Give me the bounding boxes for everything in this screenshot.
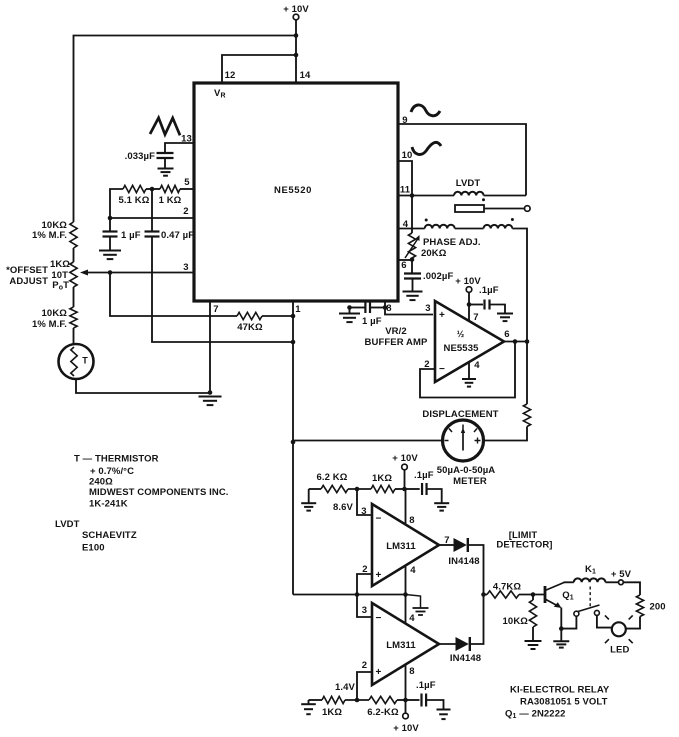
- ground: [525, 641, 542, 649]
- ground: [403, 292, 423, 301]
- pin 7 label: [213, 304, 218, 315]
- resistor 10K base: [503, 595, 537, 628]
- svg-text:1 µF: 1 µF: [362, 316, 382, 327]
- node junction: [402, 487, 407, 492]
- svg-text:1K-241K: 1K-241K: [89, 499, 128, 510]
- resistor 1K lower: [322, 696, 345, 718]
- svg-text:T — THERMISTOR: T — THERMISTOR: [74, 454, 159, 465]
- pin3 label: [425, 303, 445, 321]
- node junction: [355, 487, 360, 492]
- wire meter left: [293, 440, 443, 442]
- svg-text:3: 3: [361, 506, 366, 517]
- pin2 label: [362, 660, 382, 678]
- wire: [76, 379, 210, 393]
- svg-text:12: 12: [225, 70, 236, 81]
- node junction: [108, 270, 113, 275]
- pin2 label: [362, 564, 381, 581]
- wire: [455, 228, 484, 230]
- svg-text:47KΩ: 47KΩ: [237, 322, 263, 333]
- node junction: [410, 193, 415, 198]
- wire: [209, 301, 211, 394]
- ground: [301, 489, 316, 511]
- pin4 label: [474, 360, 480, 371]
- resistor R 10K upper: [32, 220, 77, 248]
- wire pin7: [468, 305, 470, 322]
- ground: [462, 379, 476, 387]
- capacitor .1uF opamp: [469, 285, 499, 310]
- wire pin11 row: [398, 195, 454, 197]
- svg-text:8: 8: [409, 515, 414, 526]
- node junction: [403, 698, 408, 703]
- svg-text:5: 5: [184, 177, 190, 188]
- svg-text:ADJUST: ADJUST: [9, 276, 48, 287]
- svg-text:E100: E100: [82, 543, 105, 554]
- node junction: [150, 187, 155, 192]
- svg-text:1.4V: 1.4V: [335, 682, 356, 693]
- wire: [349, 308, 351, 314]
- wire: [73, 248, 75, 262]
- svg-text:PHASE ADJ.: PHASE ADJ.: [423, 237, 481, 248]
- pin 9 label: [402, 115, 407, 126]
- wire: [411, 196, 413, 234]
- node junction: [208, 390, 213, 395]
- comparator U3 LM311: [372, 504, 439, 586]
- svg-text:3: 3: [183, 262, 188, 273]
- note relay: [505, 685, 610, 721]
- wire: [519, 594, 544, 596]
- wire: [597, 615, 612, 627]
- wire pin8: [385, 301, 433, 315]
- wire: [293, 594, 406, 596]
- svg-text:.1µF: .1µF: [414, 470, 434, 481]
- svg-text:LVDT: LVDT: [456, 178, 481, 189]
- LED D3: [605, 615, 633, 655]
- svg-text:50µA-0-50µA: 50µA-0-50µA: [437, 465, 496, 476]
- svg-text:6.2 KΩ: 6.2 KΩ: [317, 472, 348, 483]
- wire pin9: [398, 124, 526, 196]
- svg-text:14: 14: [300, 70, 311, 81]
- resistor 200: [636, 595, 665, 617]
- svg-text:6: 6: [504, 329, 509, 340]
- svg-text:+: +: [376, 667, 382, 678]
- svg-text:10: 10: [402, 150, 413, 161]
- wire emitter: [560, 608, 562, 629]
- svg-text:+ 10V: + 10V: [283, 4, 309, 15]
- pin 1 label: [295, 304, 301, 315]
- svg-text:½: ½: [457, 329, 465, 339]
- wire pin2 row: [110, 217, 194, 219]
- node junction: [355, 592, 360, 597]
- label 1.4V: [335, 682, 356, 693]
- svg-text:8: 8: [409, 666, 414, 677]
- pin4 label: [410, 565, 416, 576]
- wire pin2: [357, 672, 372, 700]
- svg-text:LED: LED: [610, 645, 629, 656]
- inductor LVDT secondary A: [425, 225, 455, 229]
- pin6 label: [504, 329, 509, 340]
- svg-text:1: 1: [295, 304, 301, 315]
- node junction: [481, 592, 486, 597]
- wire pin4 row: [398, 228, 425, 230]
- pin7 label: [473, 312, 478, 323]
- svg-text:240Ω: 240Ω: [89, 477, 113, 488]
- svg-text:KI-ELECTROL RELAY: KI-ELECTROL RELAY: [510, 685, 610, 696]
- core terminal: [525, 206, 531, 212]
- svg-text:IN4148: IN4148: [448, 556, 479, 567]
- wire: [165, 143, 194, 152]
- svg-text:VR/2: VR/2: [385, 326, 407, 337]
- pin 8 label: [386, 303, 391, 314]
- node junction: [355, 698, 360, 703]
- svg-text:DETECTOR]: DETECTOR]: [496, 540, 552, 551]
- pin 4 label: [403, 219, 409, 230]
- svg-text:2: 2: [362, 660, 367, 671]
- svg-text:+ 5V: + 5V: [611, 569, 632, 580]
- potentiometer 1K 10T: [50, 259, 77, 292]
- node junction: [559, 626, 564, 631]
- wire: [468, 292, 470, 304]
- svg-text:4: 4: [410, 565, 416, 576]
- wire collector: [564, 581, 574, 583]
- wire pin4: [405, 566, 407, 595]
- label offset adjust: [6, 265, 48, 287]
- wire: [532, 627, 534, 641]
- wire pin4: [468, 362, 470, 379]
- svg-text:4.7KΩ: 4.7KΩ: [493, 582, 521, 593]
- ground: [158, 169, 174, 176]
- wire: [370, 307, 385, 309]
- svg-text:11: 11: [400, 185, 411, 196]
- wire: [295, 20, 297, 83]
- wire: [262, 315, 293, 317]
- relay dashed link: [589, 587, 591, 608]
- pin3 label: [361, 506, 381, 525]
- thermistor T: [59, 344, 94, 379]
- node junction: [291, 314, 296, 319]
- svg-text:LM311: LM311: [386, 541, 416, 552]
- wire: [426, 700, 443, 709]
- svg-text:200: 200: [650, 602, 666, 613]
- resistor R 10K lower: [32, 307, 77, 330]
- pin8 label: [409, 515, 414, 526]
- svg-text:7: 7: [473, 312, 478, 323]
- node junction: [294, 33, 299, 38]
- svg-text:1 µF: 1 µF: [121, 230, 141, 241]
- svg-text:SCHAEVITZ: SCHAEVITZ: [82, 530, 137, 541]
- wire: [110, 189, 123, 218]
- wire: [512, 229, 527, 342]
- sine symbol pin10: [412, 142, 441, 154]
- svg-text:1% M.F.: 1% M.F.: [32, 230, 67, 241]
- svg-text:6.2-KΩ: 6.2-KΩ: [367, 707, 399, 718]
- wire: [471, 595, 484, 645]
- resistor 1K: [159, 185, 182, 206]
- wire pin6: [398, 259, 412, 261]
- svg-text:5.1 KΩ: 5.1 KΩ: [119, 195, 150, 206]
- node junction: [410, 257, 415, 262]
- wire: [74, 36, 297, 223]
- wire: [292, 301, 294, 595]
- wire: [404, 470, 406, 489]
- wire output: [439, 544, 454, 546]
- wire output: [439, 643, 456, 645]
- wire: [412, 279, 414, 292]
- svg-text:−: −: [439, 364, 445, 375]
- svg-text:1KΩ: 1KΩ: [50, 259, 70, 270]
- resistor 47K: [237, 312, 263, 333]
- svg-text:BUFFER AMP: BUFFER AMP: [365, 337, 428, 348]
- wire: [626, 617, 640, 629]
- ground: [406, 595, 429, 616]
- ground: [434, 503, 449, 510]
- core rod wire: [484, 208, 525, 210]
- wire: [490, 305, 506, 314]
- phasing dot: [482, 198, 485, 201]
- wire: [561, 616, 576, 629]
- pin7 label: [444, 535, 449, 546]
- wire: [357, 595, 372, 618]
- wire: [427, 489, 442, 503]
- phasing dot: [511, 218, 514, 221]
- wire 0.47 vertical: [151, 189, 153, 231]
- power +5V terminal: [611, 569, 632, 585]
- resistor 6.2K lower: [367, 696, 399, 718]
- relay contact: [574, 611, 579, 616]
- label limit detector: [496, 530, 552, 551]
- pin 13 label: [181, 134, 192, 145]
- svg-text:20KΩ: 20KΩ: [421, 248, 447, 259]
- wire: [222, 55, 296, 83]
- diode D1 IN4148: [448, 538, 479, 567]
- capacitor 1uF buffer: [362, 302, 382, 327]
- potentiometer PHASE ADJ 20K: [408, 233, 480, 259]
- svg-text:2: 2: [183, 206, 188, 217]
- resistor 4.7K: [487, 582, 521, 599]
- capacitor .002uF: [404, 271, 453, 282]
- svg-text:IN4148: IN4148: [450, 653, 481, 664]
- LVDT core: [455, 205, 484, 212]
- power +10V terminal: [455, 276, 481, 292]
- svg-text:7: 7: [213, 304, 218, 315]
- svg-text:+ 0.7%/°C: + 0.7%/°C: [90, 466, 134, 477]
- pin2 label: [424, 359, 445, 375]
- wire: [411, 258, 413, 273]
- svg-text:*OFFSET: *OFFSET: [6, 265, 48, 276]
- wire pin8: [405, 665, 407, 701]
- svg-text:T: T: [82, 356, 88, 366]
- wire: [484, 195, 526, 197]
- node junction: [513, 339, 530, 344]
- svg-text:.1µF: .1µF: [416, 680, 436, 691]
- svg-text:.033µF: .033µF: [125, 151, 155, 162]
- pin 12 label: [225, 70, 236, 81]
- wire: [348, 488, 371, 490]
- wire pin4: [405, 595, 407, 624]
- wire: [350, 307, 366, 309]
- wire: [345, 699, 369, 701]
- node junction: [347, 305, 387, 310]
- transistor Q1: [545, 583, 574, 609]
- wire: [623, 582, 640, 595]
- resistor 5.1K: [119, 185, 150, 206]
- svg-text:10KΩ: 10KΩ: [503, 616, 529, 627]
- node junction: [291, 440, 296, 445]
- label LVDT: [456, 178, 481, 189]
- ground: [99, 251, 121, 260]
- label 8.6V: [333, 502, 354, 513]
- wire: [397, 699, 406, 701]
- pin VR label: [214, 88, 226, 100]
- wire: [605, 581, 618, 583]
- wire: [109, 237, 111, 251]
- svg-text:3: 3: [362, 605, 367, 616]
- wire: [469, 545, 484, 595]
- wire feedback: [420, 342, 515, 398]
- ground: [437, 710, 451, 720]
- svg-text:RA3081051 5 VOLT: RA3081051 5 VOLT: [520, 697, 608, 708]
- pin 5 label: [184, 177, 190, 188]
- wire pin10: [398, 161, 412, 196]
- resistor 1K upper: [371, 473, 395, 493]
- power +10V terminal: [393, 700, 419, 734]
- svg-text:−: −: [376, 514, 382, 525]
- pin4 label: [409, 613, 415, 624]
- note lvdt: [55, 519, 137, 554]
- node junction: [294, 53, 299, 58]
- label VR/2 buffer amp: [365, 326, 428, 348]
- inductor LVDT primary: [454, 192, 484, 196]
- svg-text:.002µF: .002µF: [423, 271, 453, 282]
- meter M1: [443, 420, 484, 461]
- sine symbol pin9: [411, 105, 440, 116]
- diode D2 IN4148: [450, 637, 481, 664]
- resistor meter series: [484, 342, 531, 441]
- svg-text:DISPLACEMENT: DISPLACEMENT: [422, 409, 498, 420]
- svg-text:+: +: [439, 310, 445, 321]
- ground: [301, 700, 316, 714]
- svg-text:NE5520: NE5520: [274, 185, 312, 196]
- svg-text:0.47 µF: 0.47 µF: [161, 230, 194, 241]
- capacitor .1uF lm1: [405, 470, 434, 495]
- svg-text:10KΩ: 10KΩ: [42, 308, 68, 319]
- pot wiper arrow: [80, 270, 110, 276]
- pin 11 label: [400, 185, 411, 196]
- wire: [180, 188, 194, 190]
- relay K1 coil: [574, 578, 606, 582]
- wire: [110, 273, 237, 317]
- svg-text:1KΩ: 1KΩ: [372, 473, 392, 484]
- power +10V terminal: [283, 4, 309, 20]
- wire pin8: [405, 489, 407, 525]
- node junction: [531, 592, 536, 597]
- node junction: [467, 302, 472, 307]
- pin 14 label: [300, 70, 311, 81]
- node junction: [291, 340, 296, 345]
- power +10V terminal: [392, 453, 418, 470]
- pin 2 label: [183, 206, 188, 217]
- pin8 label: [409, 666, 414, 677]
- svg-text:MIDWEST COMPONENTS INC.: MIDWEST COMPONENTS INC.: [89, 487, 229, 498]
- relay contact arm: [578, 605, 600, 612]
- inductor LVDT secondary B: [484, 225, 513, 229]
- label displacement: [422, 409, 498, 420]
- resistor 6.2K upper: [317, 472, 348, 493]
- wire pin2: [357, 574, 372, 595]
- svg-text:METER: METER: [453, 476, 487, 487]
- svg-text:+ 10V: + 10V: [392, 453, 418, 464]
- wire: [152, 237, 293, 343]
- node junction: [403, 592, 408, 597]
- phasing dot: [425, 219, 428, 222]
- wire output: [504, 341, 527, 343]
- svg-text:8.6V: 8.6V: [333, 502, 354, 513]
- wire: [560, 629, 562, 641]
- svg-text:8: 8: [386, 303, 391, 314]
- pin 10 label: [402, 150, 413, 161]
- label K1: [585, 564, 596, 576]
- svg-text:+ 10V: + 10V: [455, 276, 481, 287]
- wire: [309, 699, 323, 701]
- pin 3 label: [183, 262, 188, 273]
- ground: [497, 314, 513, 322]
- svg-text:1% M.F.: 1% M.F.: [32, 319, 67, 330]
- ground: [199, 397, 222, 406]
- capacitor 0.47uF: [145, 230, 195, 241]
- pin3 label: [362, 605, 382, 624]
- wire: [164, 158, 166, 169]
- pin 6 label: [401, 260, 406, 271]
- svg-text:LM311: LM311: [386, 640, 416, 651]
- svg-text:−: −: [376, 613, 382, 624]
- capacitor .033uF: [125, 151, 174, 162]
- comparator U4 LM311: [372, 603, 439, 685]
- ground: [339, 314, 360, 323]
- op-amp U2 NE5535: [435, 301, 504, 382]
- svg-text:NE5535: NE5535: [444, 343, 480, 354]
- svg-text:1 KΩ: 1 KΩ: [159, 195, 182, 206]
- capacitor .1uF lm2: [406, 680, 436, 707]
- svg-text:.1µF: .1µF: [479, 285, 499, 296]
- svg-text:4: 4: [409, 613, 415, 624]
- svg-text:+ 10V: + 10V: [393, 723, 419, 734]
- svg-text:LVDT: LVDT: [55, 519, 80, 530]
- label meter: [437, 465, 496, 487]
- wire: [484, 594, 488, 596]
- capacitor 1uF: [103, 218, 141, 241]
- wire pin3 row: [110, 272, 194, 274]
- svg-text:4: 4: [474, 360, 480, 371]
- wire: [73, 287, 75, 307]
- wire: [146, 188, 160, 190]
- wire: [73, 328, 75, 344]
- note thermistor: [74, 454, 229, 510]
- wire: [395, 488, 405, 490]
- svg-text:+: +: [376, 570, 382, 581]
- ground: [553, 641, 569, 647]
- svg-text:6: 6: [401, 260, 406, 271]
- node junction: [108, 216, 113, 221]
- svg-text:3: 3: [425, 303, 430, 314]
- svg-text:1KΩ: 1KΩ: [322, 707, 342, 718]
- op-amp U1 NE5520: [194, 83, 398, 301]
- relay contact: [594, 610, 599, 615]
- pot arrow: [405, 235, 420, 258]
- wire: [357, 489, 372, 515]
- triangle wave symbol: [150, 118, 180, 136]
- wire: [309, 488, 321, 490]
